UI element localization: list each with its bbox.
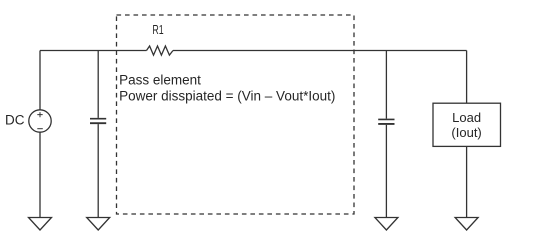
svg-text:Pass element: Pass element [119,72,201,87]
svg-text:(Iout): (Iout) [451,125,481,140]
svg-text:Power disspiated = (Vin – Vout: Power disspiated = (Vin – Vout*Iout) [119,89,335,104]
svg-text:DC: DC [5,113,25,128]
svg-text:R1: R1 [152,22,163,37]
svg-text:Load: Load [452,110,481,125]
